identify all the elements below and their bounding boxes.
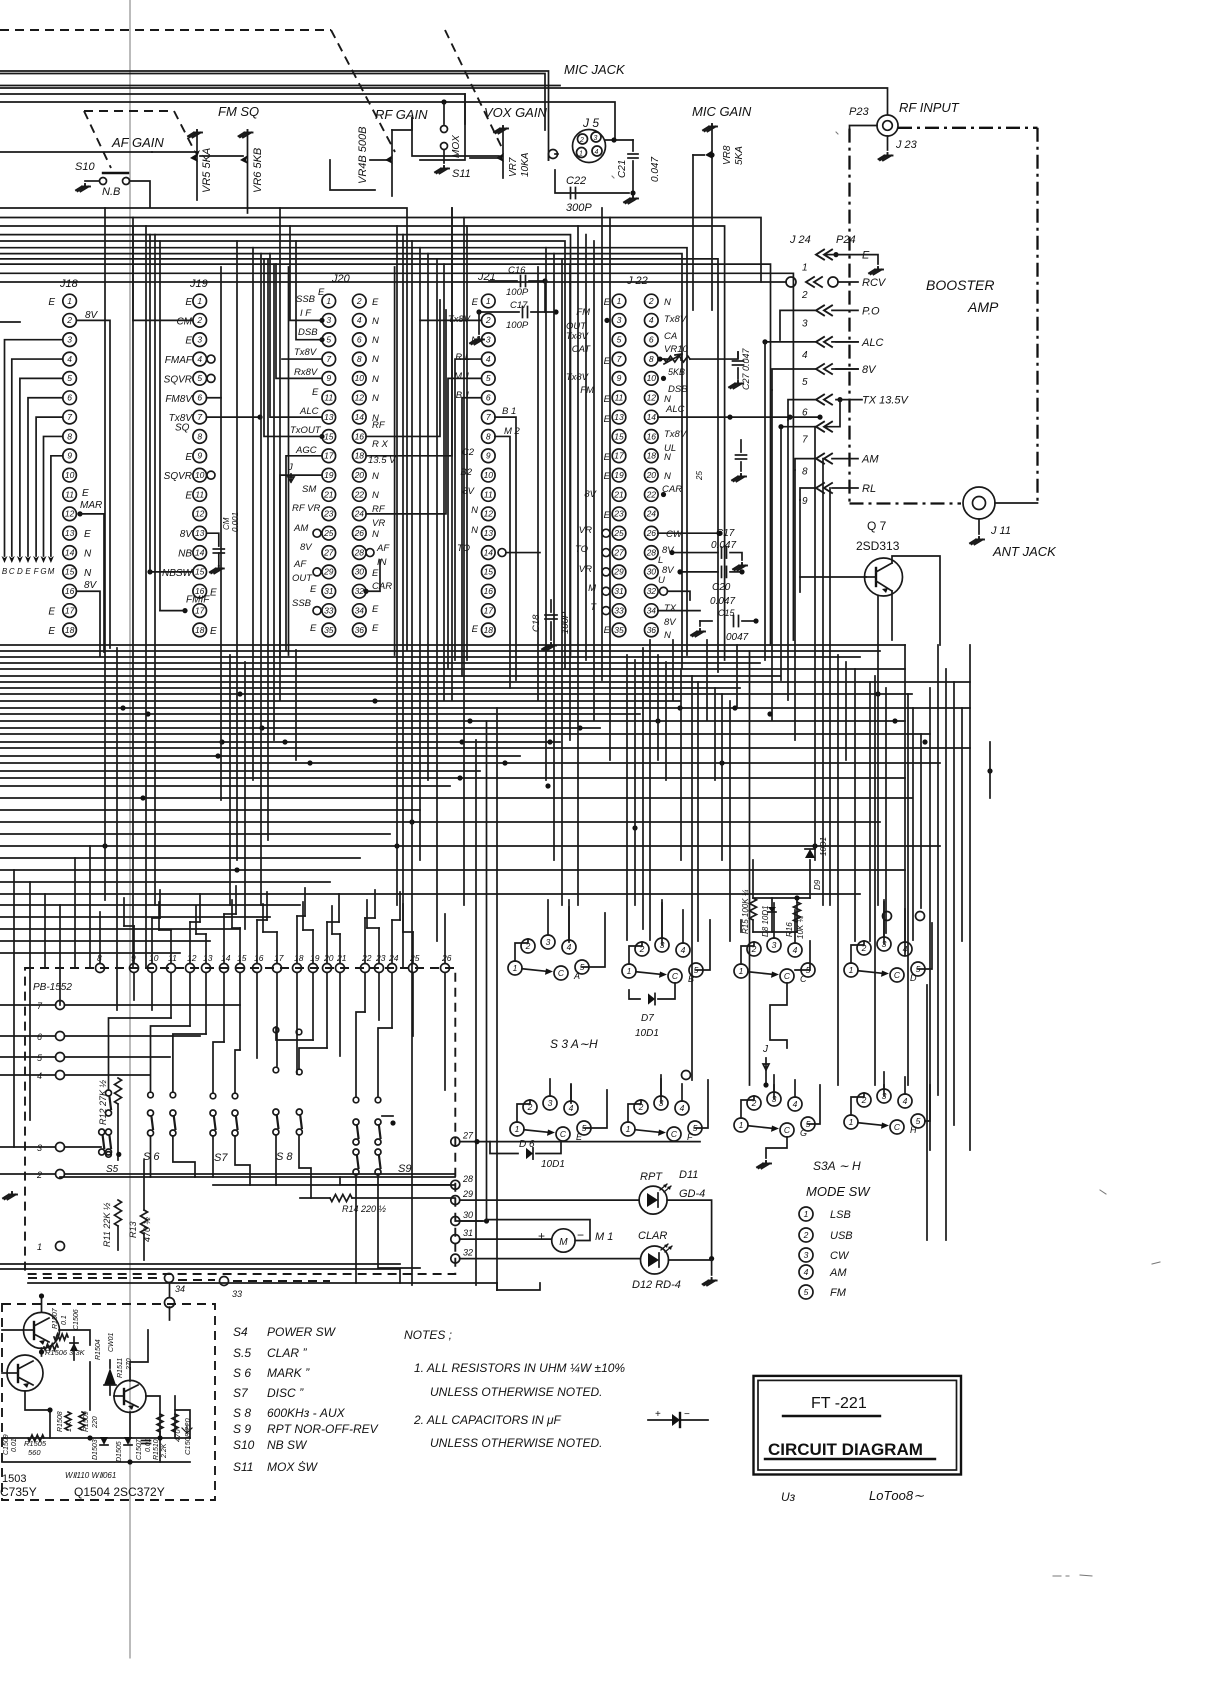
svg-text:30: 30 (463, 1210, 473, 1220)
svg-text:CM: CM (176, 316, 192, 327)
wire J21 TO right (506, 552, 540, 554)
svg-text:VR7: VR7 (508, 157, 519, 177)
svg-text:18: 18 (65, 625, 75, 635)
rotary H frame wires (883, 1085, 885, 1096)
svg-text:1: 1 (67, 296, 72, 306)
svg-text:2: 2 (356, 296, 362, 306)
wire bus2 line9 (0, 264, 771, 645)
svg-text:SQVR: SQVR (164, 374, 192, 385)
svg-text:10: 10 (355, 373, 365, 383)
svg-text:9: 9 (326, 373, 331, 383)
svg-text:0.001: 0.001 (231, 512, 240, 532)
svg-text:3: 3 (772, 940, 777, 950)
svg-text:C17: C17 (716, 528, 735, 539)
pin 4 J24 ALC (816, 337, 832, 347)
svg-text:CAT: CAT (572, 344, 591, 355)
svg-text:16: 16 (484, 586, 494, 596)
svg-text:12: 12 (65, 509, 75, 519)
svg-text:8: 8 (357, 354, 362, 364)
wires J18 left harness to arrows (5, 340, 63, 556)
wire J19 FMIF feed (160, 610, 185, 612)
junction J18 pin12 (77, 511, 82, 516)
svg-text:E: E (48, 607, 55, 618)
svg-text:8: 8 (197, 431, 202, 441)
svg-text:4: 4 (680, 1103, 685, 1113)
svg-text:19: 19 (614, 470, 624, 480)
svg-text:6: 6 (67, 393, 72, 403)
svg-text:1 K: 1 K (66, 1421, 73, 1432)
svg-text:17: 17 (65, 605, 75, 615)
svg-text:1. ALL RESISTORS IN UHM: 1. ALL RESISTORS IN UHM ¼W ±10% (414, 1361, 625, 1375)
svg-text:RF: RF (372, 420, 386, 431)
svg-text:23: 23 (323, 509, 334, 519)
open lugs J22 25 27 29 31 33 (602, 529, 610, 537)
svg-text:4: 4 (595, 149, 599, 156)
svg-text:M: M (48, 567, 55, 576)
svg-text:E: E (472, 297, 479, 308)
svg-text:VOX GAIN: VOX GAIN (484, 105, 547, 120)
svg-text:N: N (372, 529, 379, 540)
transistor Q1504 (114, 1380, 146, 1412)
wire J22 32 lug (668, 591, 691, 600)
rotary C frame wires (795, 941, 810, 970)
terminal feed comb from mesh (99, 912, 101, 964)
svg-text:E: E (48, 626, 55, 637)
svg-text:10K ¼: 10K ¼ (796, 916, 805, 939)
svg-text:C: C (784, 971, 791, 981)
svg-text:14: 14 (65, 547, 75, 557)
svg-text:17: 17 (324, 451, 334, 461)
rotary F frame wires (660, 1075, 662, 1103)
pin5 wire (836, 368, 858, 370)
svg-text:J 11: J 11 (990, 525, 1011, 537)
svg-text:1: 1 (804, 1209, 809, 1219)
svg-text:TxOUT: TxOUT (290, 425, 322, 436)
svg-text:24: 24 (354, 509, 365, 519)
svg-text:SSB: SSB (296, 294, 316, 305)
svg-text:14: 14 (355, 412, 365, 422)
svg-text:C18: C18 (531, 614, 542, 632)
svg-text:E: E (372, 623, 379, 634)
svg-text:TX 13.5V: TX 13.5V (862, 395, 910, 407)
svg-text:S 6: S 6 (143, 1151, 160, 1163)
svg-text:IN: IN (377, 557, 387, 568)
terminals 27-32 right edge (451, 1137, 460, 1146)
svg-text:B 1: B 1 (456, 390, 470, 401)
pin 5 J24 8V (816, 364, 832, 374)
svg-text:C: C (800, 974, 807, 984)
svg-text:4: 4 (681, 945, 686, 955)
svg-text:N: N (372, 354, 379, 365)
svg-text:8: 8 (486, 431, 491, 441)
resistor R13 470 (141, 1210, 148, 1234)
capacitor C20 0.047 (680, 571, 718, 573)
svg-text:ALC: ALC (861, 337, 883, 349)
svg-text:S5: S5 (106, 1164, 119, 1175)
svg-text:2.2K: 2.2K (161, 1443, 168, 1459)
svg-text:5: 5 (197, 373, 202, 383)
pin3 wire (780, 310, 816, 340)
svg-text:FT -221: FT -221 (811, 1395, 867, 1412)
svg-text:9: 9 (67, 451, 72, 461)
junction dots transistor box (87, 1435, 92, 1440)
svg-text:S 6: S 6 (233, 1366, 251, 1380)
svg-text:7: 7 (802, 435, 808, 446)
svg-text:22: 22 (354, 489, 365, 499)
svg-text:NBSW: NBSW (162, 568, 194, 579)
svg-text:26: 26 (354, 528, 365, 538)
svg-text:C: C (671, 1129, 678, 1139)
svg-text:23: 23 (375, 953, 386, 963)
dashed linkage to VOX (445, 30, 503, 150)
svg-text:19: 19 (324, 470, 334, 480)
svg-text:LоTоο8∼: LоTоο8∼ (869, 1488, 924, 1503)
svg-text:35: 35 (614, 625, 624, 635)
wire bus2 line7 (0, 254, 682, 668)
svg-text:5: 5 (617, 335, 622, 345)
svg-text:4: 4 (67, 354, 72, 364)
svg-text:26: 26 (646, 528, 657, 538)
svg-text:7: 7 (326, 354, 331, 364)
svg-text:R1507: R1507 (52, 1307, 59, 1329)
svg-text:25: 25 (409, 953, 420, 963)
wire J19 NBSW (150, 571, 193, 573)
wire P23 left into booster (850, 126, 878, 130)
svg-text:5KA: 5KA (734, 146, 745, 165)
svg-text:C735Y: C735Y (0, 1485, 37, 1499)
mode item CW (799, 1248, 813, 1262)
open junction above box (169, 1283, 171, 1297)
svg-text:FMIF: FMIF (186, 595, 210, 606)
svg-text:R1509: R1509 (83, 1411, 90, 1432)
rotary G frame wires (773, 1085, 775, 1099)
svg-text:4: 4 (793, 1099, 798, 1109)
svg-text:20: 20 (646, 470, 657, 480)
pin 6 J24 TX 13.5V (816, 395, 832, 405)
svg-text:2. ALL CAPACITORS IN μF: 2. ALL CAPACITORS IN μF (413, 1413, 562, 1427)
pot VR6 (239, 130, 253, 138)
rotary switch S3 wafer D (844, 963, 858, 977)
svg-text:N: N (372, 471, 379, 482)
wire bus2 line3 (0, 226, 725, 660)
svg-text:3: 3 (617, 315, 622, 325)
wire MIC JACK line (0, 88, 888, 114)
wire mesh stub right (989, 742, 991, 798)
resistor R1510 22K (157, 1414, 163, 1432)
ground C16 C17 (478, 312, 480, 334)
mode item AM (799, 1265, 813, 1279)
svg-text:15: 15 (614, 431, 624, 441)
svg-text:ANT JACK: ANT JACK (992, 544, 1057, 559)
svg-text:DSB: DSB (298, 327, 318, 338)
svg-text:S10: S10 (233, 1438, 255, 1452)
svg-text:E: E (372, 568, 379, 579)
svg-text:I F: I F (300, 308, 312, 319)
svg-text:E: E (210, 626, 217, 637)
svg-text:18: 18 (647, 451, 657, 461)
svg-text:C21: C21 (617, 160, 628, 178)
wire Q7 emitter (891, 591, 893, 640)
svg-text:10KA: 10KA (520, 152, 531, 177)
svg-text:PB-1552: PB-1552 (33, 982, 72, 993)
svg-text:FM SQ: FM SQ (218, 104, 259, 119)
svg-text:4: 4 (802, 350, 808, 361)
svg-text:S11: S11 (233, 1460, 253, 1474)
svg-text:2: 2 (801, 290, 808, 301)
rotary switch S3 wafer H (844, 1115, 858, 1129)
svg-text:M: M (588, 583, 596, 594)
mode item USB (799, 1228, 813, 1242)
svg-text:VR: VR (372, 518, 385, 529)
svg-text:C1506: C1506 (73, 1309, 80, 1330)
svg-text:Q1504 2SC372Y: Q1504 2SC372Y (74, 1485, 165, 1499)
svg-text:N.B: N.B (102, 186, 120, 198)
svg-text:N: N (471, 505, 478, 516)
wire 497 bend (497, 1283, 540, 1290)
wire top bus E (0, 102, 615, 140)
svg-text:P.O: P.O (862, 305, 880, 317)
svg-text:20: 20 (323, 953, 334, 963)
svg-text:F: F (687, 1132, 693, 1142)
svg-text:SQ: SQ (175, 422, 190, 433)
svg-text:2: 2 (803, 1230, 809, 1240)
svg-text:OUT: OUT (292, 573, 313, 584)
svg-text:1: 1 (513, 963, 518, 973)
switch S5 contacts (106, 1090, 112, 1096)
svg-text:12: 12 (484, 509, 494, 519)
svg-text:S7: S7 (214, 1152, 228, 1164)
svg-text:22: 22 (361, 953, 372, 963)
svg-text:N: N (372, 374, 379, 385)
svg-text:C20: C20 (712, 582, 731, 593)
svg-text:MOX: MOX (451, 135, 462, 158)
svg-text:VR4B 500B: VR4B 500B (357, 127, 369, 184)
connector J18 circles (63, 294, 77, 308)
svg-text:4: 4 (197, 354, 202, 364)
svg-text:N: N (84, 568, 92, 579)
svg-text:4: 4 (903, 944, 908, 954)
svg-text:AF: AF (293, 559, 307, 570)
svg-text:E: E (312, 387, 319, 398)
resistor R1508 1K (65, 1412, 71, 1430)
pin1 wire to ground (833, 252, 838, 257)
svg-text:RF INPUT: RF INPUT (899, 100, 960, 115)
wire J19 Tx8V right (207, 416, 261, 418)
svg-text:31: 31 (463, 1228, 473, 1238)
rotary A frame wires (568, 900, 570, 942)
svg-text:CA: CA (664, 331, 677, 342)
svg-text:33: 33 (614, 605, 624, 615)
svg-text:FM8V: FM8V (165, 394, 193, 405)
wire mesh horizontals band B (0, 785, 450, 787)
svg-text:14: 14 (647, 412, 657, 422)
svg-text:15: 15 (65, 567, 75, 577)
svg-text:600KHз - AUX: 600KHз - AUX (267, 1406, 346, 1420)
assembly R15 D8 R16 D9 (752, 860, 754, 898)
svg-text:D: D (17, 567, 23, 576)
svg-text:Tx8V: Tx8V (294, 347, 318, 358)
svg-text:LSB: LSB (830, 1209, 851, 1221)
polarity sketch (648, 1419, 708, 1421)
wire 30 (460, 1220, 482, 1222)
svg-text:9: 9 (486, 451, 491, 461)
svg-text:D1503: D1503 (92, 1439, 99, 1460)
wires J20 left feeds (290, 226, 322, 320)
svg-text:E: E (310, 584, 317, 595)
svg-text:34: 34 (355, 605, 365, 615)
svg-text:E: E (25, 567, 31, 576)
svg-text:RPT: RPT (640, 1171, 663, 1183)
svg-text:33: 33 (324, 605, 334, 615)
svg-text:MIC JACK: MIC JACK (564, 62, 626, 77)
svg-text:R15 100K ¼: R15 100K ¼ (741, 889, 750, 934)
switch S8 contacts (273, 1109, 279, 1115)
svg-text:Rx8V: Rx8V (294, 367, 319, 378)
svg-text:0.01: 0.01 (11, 1438, 18, 1452)
svg-text:33: 33 (232, 1289, 242, 1299)
svg-text:13: 13 (614, 412, 624, 422)
svg-text:N: N (664, 630, 671, 641)
svg-text:N: N (664, 297, 671, 308)
wire mic jack to J5 (555, 153, 558, 155)
svg-text:M 1: M 1 (595, 1231, 613, 1243)
pin9 wire (800, 488, 816, 500)
svg-text:WⅡ110 WⅡ061: WⅡ110 WⅡ061 (65, 1471, 116, 1480)
svg-text:E: E (472, 624, 479, 635)
wire bus2 line2 (0, 218, 761, 283)
svg-text:4: 4 (567, 942, 572, 952)
svg-text:10D1: 10D1 (541, 1159, 565, 1170)
svg-text:3: 3 (37, 1143, 42, 1153)
svg-text:0.01: 0.01 (145, 1438, 152, 1452)
svg-text:31: 31 (614, 586, 624, 596)
svg-text:16: 16 (647, 431, 657, 441)
wire bus2 line1 (0, 208, 407, 650)
terminal left wires (0, 1004, 56, 1006)
svg-text:1: 1 (739, 966, 744, 976)
wire J19 CM (133, 319, 193, 321)
svg-text:8V: 8V (85, 310, 99, 321)
svg-text:E: E (318, 287, 325, 298)
pin7 wire loop (826, 400, 840, 427)
svg-text:16: 16 (355, 431, 365, 441)
svg-text:1: 1 (849, 965, 854, 975)
svg-text:14: 14 (484, 547, 494, 557)
svg-text:NB SW: NB SW (267, 1438, 308, 1452)
pin 1 J24 E (816, 250, 832, 260)
svg-text:CW: CW (666, 529, 683, 540)
wire 31 meter (460, 1238, 552, 1240)
svg-text:B: B (688, 974, 694, 984)
svg-text:5: 5 (802, 377, 808, 388)
svg-text:10: 10 (484, 470, 494, 480)
svg-text:DSB: DSB (668, 384, 688, 395)
svg-text:CLAR: CLAR (638, 1230, 667, 1242)
svg-text:C: C (560, 1129, 567, 1139)
open lugs J19 pins 4 5 10 (207, 355, 215, 363)
speck top (612, 132, 838, 178)
svg-text:B 1: B 1 (502, 406, 516, 417)
svg-text:22: 22 (646, 489, 657, 499)
wires J20 right feeds (366, 300, 440, 436)
switch S6 contacts (148, 1110, 154, 1116)
svg-text:E: E (185, 491, 192, 502)
PB box long horizontals (60, 1176, 455, 1178)
svg-text:9: 9 (617, 373, 622, 383)
mode item LSB (799, 1207, 813, 1221)
svg-text:29: 29 (323, 567, 334, 577)
junction dots J20 pins 3 5 15 (319, 318, 324, 323)
svg-text:470: 470 (173, 1429, 182, 1442)
svg-text:0.047: 0.047 (650, 157, 661, 182)
svg-text:S.5: S.5 (233, 1346, 251, 1360)
module PB-1552 dashed box (25, 968, 455, 1274)
svg-text:10: 10 (195, 470, 205, 480)
svg-text:29: 29 (462, 1189, 473, 1199)
wire vox drop (412, 118, 499, 156)
svg-text:1: 1 (849, 1117, 854, 1127)
svg-text:U: U (658, 575, 665, 586)
svg-text:ALC: ALC (299, 406, 319, 417)
svg-text:G: G (800, 1128, 807, 1138)
svg-text:N: N (372, 393, 379, 404)
wire collector Q1504 up (130, 1330, 148, 1381)
svg-text:C1508 220: C1508 220 (183, 1417, 192, 1455)
svg-text:J18: J18 (59, 278, 79, 290)
svg-text:11: 11 (195, 489, 204, 499)
svg-text:R X: R X (372, 439, 389, 450)
svg-text:2: 2 (66, 315, 72, 325)
rotary switch S3 wafer B (622, 964, 636, 978)
svg-text:28: 28 (462, 1174, 473, 1184)
svg-text:27: 27 (613, 547, 624, 557)
junction J19 pin17 (182, 608, 187, 613)
speck marks bottom right (1053, 1575, 1092, 1576)
svg-text:Uз: Uз (781, 1490, 796, 1504)
pin4 wire (836, 341, 858, 343)
mode item FM (799, 1285, 813, 1299)
svg-text:300P: 300P (566, 202, 592, 214)
svg-text:220: 220 (92, 1416, 99, 1429)
svg-text:6: 6 (197, 393, 202, 403)
svg-text:12: 12 (195, 509, 205, 519)
svg-text:20: 20 (354, 470, 365, 480)
svg-text:10: 10 (149, 953, 159, 963)
svg-text:35: 35 (324, 625, 334, 635)
wire J22 TX 34 (658, 610, 700, 612)
pin 8 J24 AM (816, 454, 832, 464)
svg-text:10: 10 (647, 373, 657, 383)
svg-text:2: 2 (648, 296, 654, 306)
svg-text:0047: 0047 (726, 632, 749, 643)
svg-text:D: D (910, 973, 917, 983)
svg-text:AM: AM (293, 523, 308, 534)
booster amp enclosure dash-dot (898, 127, 1038, 129)
svg-text:6: 6 (486, 393, 491, 403)
svg-text:M 2: M 2 (504, 426, 521, 437)
svg-text:12: 12 (187, 953, 197, 963)
svg-text:4: 4 (793, 945, 798, 955)
title block FT-221 outer (754, 1376, 962, 1475)
svg-text:AF: AF (376, 543, 390, 554)
svg-text:D1505: D1505 (116, 1441, 123, 1462)
svg-text:S11: S11 (452, 168, 471, 180)
junction dots J22 10 22 (661, 376, 666, 381)
svg-text:CLAR ˮ: CLAR ˮ (267, 1346, 307, 1360)
svg-text:470 ½: 470 ½ (142, 1216, 152, 1242)
svg-text:R1510: R1510 (153, 1439, 160, 1460)
svg-text:7: 7 (486, 412, 491, 422)
